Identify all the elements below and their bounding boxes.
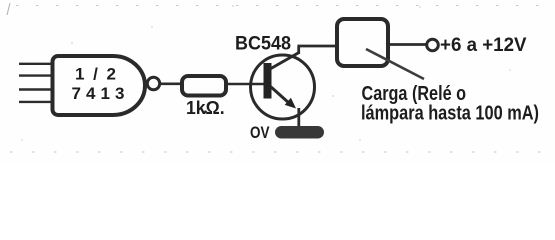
resistor R1 1k ohm [182,76,226,118]
nand gate output inverter bubble [147,77,159,89]
svg-text:1kΩ.: 1kΩ. [186,98,225,118]
pointer line from load box to Carga label [366,49,424,79]
figure border dashed bottom edge [10,151,550,153]
figure border dash top-left tick [7,3,10,15]
svg-text:OV: OV [250,123,270,142]
svg-text:+6 a +12V: +6 a +12V [440,35,527,56]
figure border dashed top edge [16,5,553,7]
svg-text:BC548: BC548 [235,34,291,55]
nand gate input wire 3 [19,88,52,90]
wire resistor to transistor base [228,83,265,86]
ground bar 0V [275,126,324,139]
scan speckles [21,5,511,141]
nand gate input wire 4 [19,101,52,103]
load box (carga) [337,19,388,66]
svg-text:1/2: 1/2 [75,65,116,84]
nand gate U1 body (1/2 7413) [53,56,146,115]
nand gate input wire 2 [19,74,52,76]
wire bubble to resistor R1 [160,83,181,86]
supply terminal circle [427,39,439,51]
wire load box to supply terminal [390,43,426,46]
emitter wire down to ground bar [297,108,300,128]
collector wire up and right to load box [297,46,336,54]
transistor Q1 BC548 [251,53,315,120]
nand gate input wire 1 [19,63,52,65]
svg-text:lámpara hasta 100 mA): lámpara hasta 100 mA) [361,103,539,125]
